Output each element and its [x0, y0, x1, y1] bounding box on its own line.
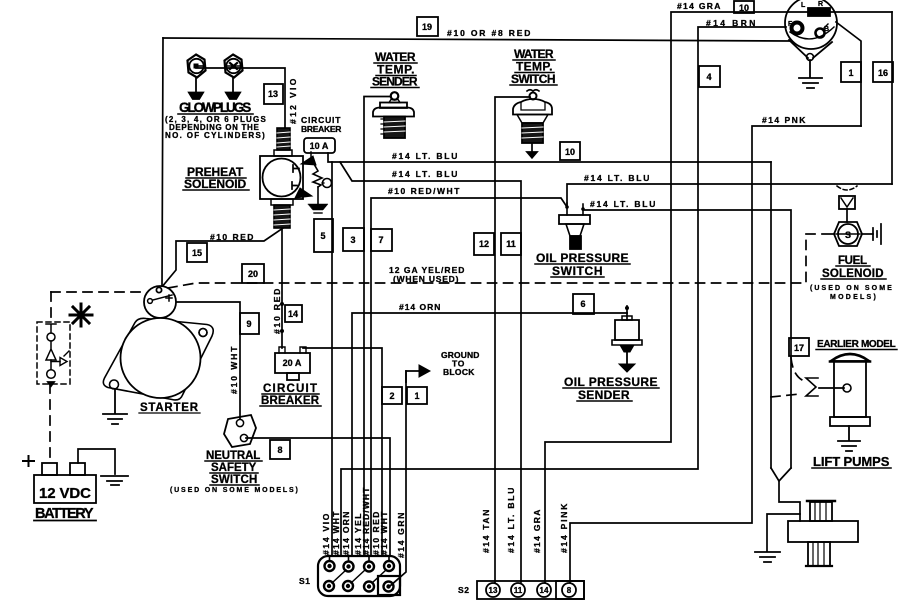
svg-text:#14 ORN: #14 ORN — [399, 302, 441, 312]
svg-text:13: 13 — [268, 89, 278, 99]
preheat solenoid body — [260, 156, 303, 199]
dashed wires — [50, 234, 822, 461]
svg-text:STARTER: STARTER — [140, 402, 199, 414]
wire water temp switch down to S2 pin 13 — [495, 97, 530, 582]
svg-text:5: 5 — [320, 231, 325, 241]
oil pressure switch — [567, 203, 583, 215]
box 17 — [789, 338, 809, 356]
svg-text:#14 LT. BLU: #14 LT. BLU — [506, 487, 516, 553]
preheat solenoid coil bottom — [274, 205, 290, 228]
20A circuit breaker — [275, 353, 310, 373]
circuit breaker 10A box — [304, 138, 335, 153]
fuel solenoid V-box — [837, 186, 857, 190]
box 10 mid — [560, 142, 580, 160]
svg-text:#14 PINK: #14 PINK — [559, 503, 569, 553]
box 19 — [417, 17, 438, 36]
neutral safety switch — [224, 415, 256, 447]
preheat solenoid coil top — [277, 128, 290, 150]
svg-text:EARLIER MODEL: EARLIER MODEL — [817, 339, 896, 350]
svg-text:#14 WHT: #14 WHT — [331, 511, 341, 555]
wire starter solenoid to neutral safety switch — [176, 302, 240, 419]
svg-text:#12 VIO: #12 VIO — [288, 78, 298, 124]
S1 connector — [318, 556, 400, 596]
preheat arrow lower — [295, 188, 312, 198]
svg-text:SENDER: SENDER — [578, 388, 630, 402]
svg-text:#14 GRA: #14 GRA — [532, 509, 542, 553]
battery ground — [101, 476, 128, 485]
svg-text:FUEL: FUEL — [838, 255, 868, 267]
svg-text:SOLENOID: SOLENOID — [184, 177, 247, 191]
dashed wire 12 GA YEL/RED across page — [168, 234, 806, 288]
box 20 — [242, 264, 264, 283]
ground below preheat resistor — [317, 187, 319, 204]
svg-text:#14 PNK: #14 PNK — [762, 115, 806, 125]
svg-text:OIL PRESSURE: OIL PRESSURE — [564, 375, 658, 389]
svg-text:15: 15 — [192, 248, 202, 258]
wire #14 GRA top: alternator L to down-left — [545, 12, 892, 582]
svg-text:#14 LT. BLU: #14 LT. BLU — [584, 173, 650, 183]
svg-text:17: 17 — [794, 343, 804, 353]
svg-text:#14 LT. BLU: #14 LT. BLU — [590, 199, 656, 209]
wire #14 LT. BLU oil switch T2 to lift pump feed — [583, 209, 791, 468]
svg-text:10: 10 — [739, 3, 749, 13]
glowplug 1 — [188, 55, 206, 78]
box 8 — [270, 440, 290, 459]
box 5 — [314, 219, 333, 252]
dashed wire key switch to starter solenoid — [51, 291, 145, 293]
box 10 top — [734, 1, 754, 13]
svg-text:SWITCH: SWITCH — [552, 264, 603, 278]
fuel solenoid right clip — [873, 224, 881, 244]
svg-text:#14 WHT: #14 WHT — [379, 511, 389, 555]
wire B #14 LT. BLU to S2 pin 11 — [340, 162, 521, 582]
wire lift pump ground branch — [767, 514, 800, 551]
oil pressure sender — [625, 306, 629, 310]
glowplug 2 — [225, 55, 243, 78]
svg-text:20: 20 — [248, 269, 258, 279]
svg-text:8: 8 — [277, 445, 282, 455]
preheat terminal marks — [292, 165, 299, 189]
wire A #14 LT. BLU from 10A breaker — [328, 153, 771, 162]
box 6 — [573, 294, 594, 314]
svg-text:16: 16 — [878, 68, 888, 78]
box 2 — [382, 387, 402, 404]
svg-text:20 A: 20 A — [283, 358, 302, 368]
box 13 — [264, 84, 283, 104]
wire fuel solenoid right to clip — [862, 233, 873, 235]
dashed wire from box 17 to connector — [791, 358, 804, 381]
svg-text:S2: S2 — [458, 585, 470, 595]
svg-text:NEUTRAL: NEUTRAL — [206, 450, 261, 462]
wire neutral safety switch to S1 — [246, 438, 390, 556]
svg-text:SWITCH: SWITCH — [511, 72, 556, 86]
svg-text:(WHEN USED): (WHEN USED) — [393, 274, 459, 284]
box 9 — [240, 313, 259, 334]
box 7 — [371, 229, 392, 251]
starter solenoid — [144, 286, 176, 318]
preheat resistor zigzag — [313, 164, 322, 187]
svg-text:#10 OR #8 RED: #10 OR #8 RED — [447, 28, 531, 38]
svg-text:BREAKER: BREAKER — [301, 124, 342, 134]
wire preheat coil down to 20A breaker — [281, 228, 283, 348]
svg-text:14: 14 — [288, 309, 298, 319]
svg-text:3: 3 — [350, 235, 355, 245]
wire fuel solenoid left stub — [822, 233, 834, 235]
starter flange — [103, 318, 213, 400]
wire #14 LT. BLU oil switch T1 to alternator — [567, 184, 892, 207]
svg-text:12 VDC: 12 VDC — [39, 485, 92, 502]
svg-text:#14 RED/WHT: #14 RED/WHT — [361, 487, 371, 555]
battery — [34, 475, 96, 503]
dashed wire key switch vertical top — [50, 292, 52, 322]
svg-text:CIRCUIT: CIRCUIT — [263, 383, 318, 395]
asterisk — [70, 304, 92, 326]
earlier pump connector sigma — [806, 378, 818, 396]
wire left border to starter post — [162, 38, 163, 287]
box 12 — [474, 233, 494, 255]
ground to block arrow — [406, 371, 420, 382]
svg-text:11: 11 — [514, 586, 523, 595]
wire #10 RED preheat coil to starter post — [161, 228, 283, 288]
starter ground — [103, 389, 127, 424]
wire battery post 2 to ground — [78, 449, 115, 474]
svg-text:8: 8 — [567, 586, 572, 595]
wire from wire A down to S1 — [331, 162, 333, 556]
S1 feed stubs — [330, 556, 390, 561]
svg-text:#14 LT. BLU: #14 LT. BLU — [392, 151, 458, 161]
wire earlier lift pump connector — [819, 387, 844, 389]
svg-text:S1: S1 — [299, 576, 311, 586]
starter motor circle — [121, 318, 201, 398]
earlier lift pump — [830, 354, 870, 362]
svg-text:1: 1 — [848, 68, 853, 78]
wire top border #10 OR #8 RED — [163, 38, 790, 41]
dashed wire key switch to battery — [49, 384, 51, 461]
water temp sender — [391, 92, 399, 100]
svg-text:7: 7 — [378, 235, 383, 245]
svg-text:#14 VIO: #14 VIO — [321, 513, 331, 555]
svg-text:F: F — [788, 21, 793, 28]
svg-text:10: 10 — [565, 147, 575, 157]
svg-text:#14 GRN: #14 GRN — [396, 512, 406, 558]
svg-text:4: 4 — [706, 72, 711, 82]
preheat arrow upper — [301, 156, 316, 165]
svg-text:13: 13 — [489, 586, 498, 595]
svg-text:#14 ORN: #14 ORN — [341, 511, 351, 555]
wire ground-to-block line down to S1 — [390, 371, 406, 586]
svg-text:SOLENOID: SOLENOID — [822, 268, 884, 280]
wire glowplugs to preheat coil #12 VIO — [196, 68, 285, 128]
svg-text:#14 TAN: #14 TAN — [481, 509, 491, 553]
later pump ground — [755, 552, 780, 562]
svg-text:LIFT PUMPS: LIFT PUMPS — [813, 454, 890, 469]
wire fuel solenoid V-box stem — [846, 209, 848, 222]
svg-text:10 A: 10 A — [310, 141, 329, 151]
svg-text:6: 6 — [580, 299, 585, 309]
svg-text:R: R — [818, 1, 823, 8]
svg-text:19: 19 — [422, 22, 432, 32]
box 1 mid — [407, 387, 427, 404]
svg-text:#10 RED/WHT: #10 RED/WHT — [388, 186, 460, 196]
svg-text:1: 1 — [414, 391, 419, 401]
wire oil sender T dot stub — [626, 306, 628, 313]
svg-text:12: 12 — [479, 239, 489, 249]
wire #14 BRN: alternator to S1 — [341, 27, 786, 556]
junction dots on #10 RED wire — [280, 302, 284, 306]
dashed wire fuel solenoid left — [806, 233, 822, 235]
wire alternator top right down to oil switch row — [891, 12, 893, 184]
wire water temp sender down to S1 — [364, 97, 391, 557]
preheat resistor terminal circle — [323, 179, 332, 188]
svg-text:SWITCH: SWITCH — [211, 474, 258, 486]
svg-text:S: S — [845, 230, 851, 240]
svg-text:#14 LT. BLU: #14 LT. BLU — [392, 169, 458, 179]
svg-text:(USED ON SOME MODELS): (USED ON SOME MODELS) — [170, 487, 298, 494]
later lift pump — [807, 500, 835, 502]
box 11 — [501, 233, 521, 255]
S2 connector — [477, 581, 584, 599]
dashed wire to earlier lift pump — [771, 394, 800, 397]
svg-text:SENDER: SENDER — [372, 75, 418, 89]
wire A turn down at right — [770, 162, 772, 468]
svg-text:BREAKER: BREAKER — [261, 395, 320, 407]
svg-text:BLOCK: BLOCK — [443, 367, 475, 377]
svg-text:#10 WHT: #10 WHT — [229, 346, 239, 394]
box 15 — [187, 243, 207, 262]
svg-text:#10 RED: #10 RED — [272, 288, 282, 334]
wire #10 RED/WHT — [371, 198, 567, 556]
svg-text:#10 RED: #10 RED — [210, 232, 254, 242]
svg-text:14: 14 — [540, 586, 549, 595]
water temp switch — [530, 93, 537, 100]
svg-text:GLOWPLUGS: GLOWPLUGS — [179, 100, 252, 115]
box 16 — [873, 62, 893, 82]
svg-text:L: L — [801, 2, 806, 9]
wire #14 PNK — [570, 126, 861, 582]
wire alternator diagonal to box 1 — [836, 22, 861, 126]
key switch assembly — [37, 322, 70, 387]
box 4 — [699, 66, 720, 87]
wire #14 ORN S1 to oil sender — [352, 313, 627, 556]
wire oil sender stub — [626, 313, 628, 320]
svg-text:MODELS): MODELS) — [830, 294, 876, 301]
svg-text:OIL PRESSURE: OIL PRESSURE — [536, 251, 629, 265]
svg-text:2: 2 — [389, 391, 394, 401]
box 14 — [285, 305, 302, 322]
box 3 — [343, 228, 364, 251]
svg-text:NO. OF CYLINDERS): NO. OF CYLINDERS) — [165, 131, 265, 140]
svg-text:SAFETY: SAFETY — [211, 462, 257, 474]
box 1 top — [841, 62, 861, 82]
svg-text:(USED ON SOME: (USED ON SOME — [810, 285, 892, 292]
S2 pin numbers 13 11 14 8 — [489, 586, 572, 595]
svg-text:9: 9 — [246, 319, 251, 329]
alternator — [785, 0, 837, 49]
wire lift pump funnel merge — [771, 468, 800, 521]
svg-text:#14 GRA: #14 GRA — [677, 1, 721, 11]
box reference numbers 19 13 10 1 16 4 10 15 20 5 3 7 12 11 14 9 6 2 1 8 17 and breaker ratings — [192, 3, 888, 455]
svg-text:B: B — [824, 26, 829, 33]
wire 20A breaker to S1 #10 RED — [303, 348, 382, 556]
svg-text:11: 11 — [506, 239, 516, 249]
wire water temp switch arrow stem — [531, 143, 533, 152]
fuel solenoid hexagon — [834, 222, 862, 246]
